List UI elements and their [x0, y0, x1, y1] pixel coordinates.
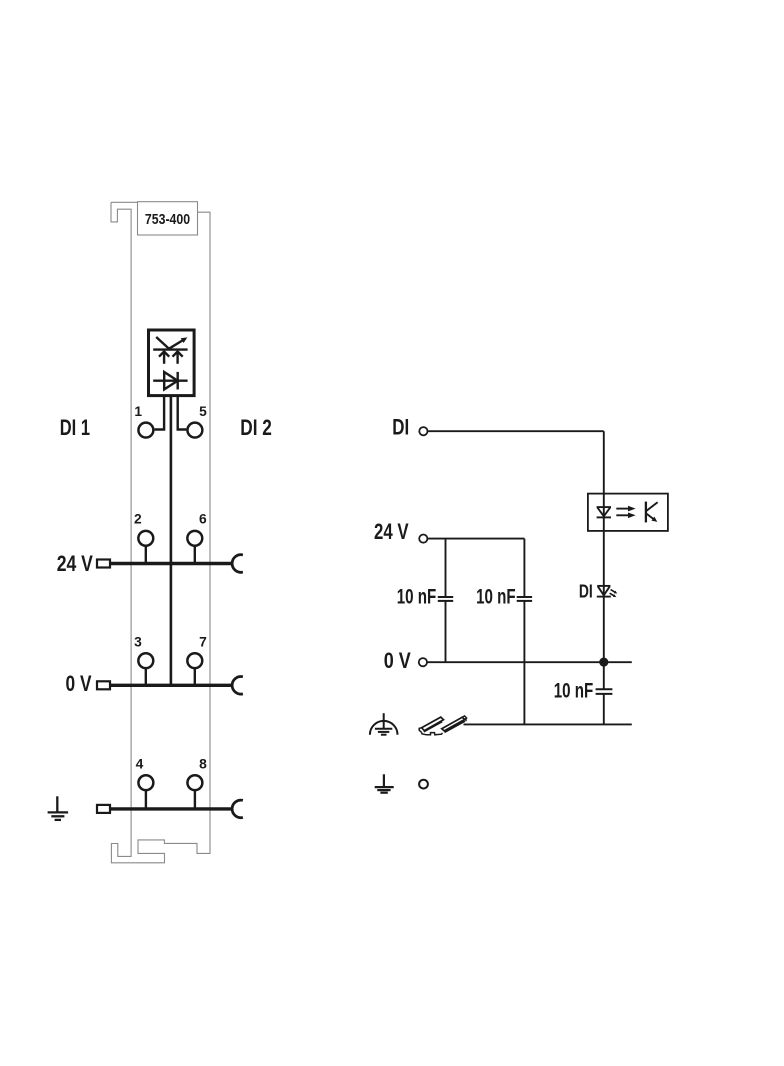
stem terminal 8: [194, 790, 196, 809]
svg-text:10 nF: 10 nF: [476, 586, 516, 609]
svg-text:10 nF: 10 nF: [554, 680, 594, 703]
svg-text:5: 5: [199, 404, 207, 419]
terminal 2: [138, 531, 153, 546]
0V open arc: [232, 677, 243, 695]
earth open arc: [232, 800, 243, 818]
svg-text:7: 7: [199, 635, 207, 650]
terminal 5: [187, 423, 202, 438]
24V open arc: [232, 555, 243, 573]
ground symbol bottom: [375, 774, 394, 792]
wire vertical main: [603, 431, 605, 689]
stem terminal 2: [145, 546, 147, 564]
svg-text:2: 2: [134, 512, 142, 527]
svg-text:DI 2: DI 2: [240, 415, 272, 440]
LED DI indicator: [597, 586, 611, 597]
wire cap1 drop: [445, 539, 447, 597]
label box 753-400: [138, 202, 198, 235]
wire 0V horizontal: [427, 661, 632, 663]
DIN rail symbol: [419, 716, 466, 735]
terminal 6: [187, 531, 202, 546]
24V field terminal square: [97, 560, 110, 568]
terminal 3: [138, 653, 153, 668]
stem terminal 3: [145, 668, 147, 685]
svg-text:DI: DI: [579, 580, 593, 601]
stem terminal 4: [145, 790, 147, 809]
node 24V terminal: [419, 535, 427, 543]
wire from box to terminal 5: [178, 397, 187, 430]
24V bus line: [110, 562, 233, 565]
terminal 8: [187, 775, 202, 790]
stem terminal 7: [194, 668, 196, 685]
node 0V terminal: [419, 658, 427, 666]
optocoupler LED: [597, 507, 611, 517]
svg-text:0 V: 0 V: [66, 671, 92, 696]
suppressor/input glyph inside box: [153, 337, 187, 364]
phototransistor Q1: [645, 502, 647, 523]
diode glyph inside box: [153, 372, 187, 390]
wire 24V horizontal: [427, 538, 524, 540]
capacitor C2 10nF: [517, 597, 532, 601]
capacitor C1 10nF: [438, 597, 453, 601]
svg-text:8: 8: [199, 757, 207, 772]
earth bus line: [110, 807, 233, 810]
input symbol box U1: [149, 330, 195, 396]
svg-text:0 V: 0 V: [384, 648, 411, 673]
wire cap2 drop: [523, 539, 525, 597]
terminal 1: [138, 423, 153, 438]
svg-text:6: 6: [199, 512, 207, 527]
wire from box to terminal 1: [155, 397, 165, 430]
light arrow 2: [616, 514, 628, 516]
svg-text:DI 1: DI 1: [60, 415, 90, 440]
junction dot: [599, 658, 608, 667]
svg-text:4: 4: [136, 757, 144, 772]
svg-text:3: 3: [134, 635, 142, 650]
svg-text:753-400: 753-400: [145, 212, 190, 228]
0V field terminal square: [97, 681, 110, 689]
0V bus line: [110, 684, 233, 687]
shield earth symbol: [370, 713, 398, 735]
module 753-400 outline: [111, 202, 210, 863]
wire center bus down to 0V: [170, 395, 173, 685]
earth field terminal square: [97, 805, 110, 813]
svg-text:DI: DI: [392, 415, 409, 440]
svg-text:10 nF: 10 nF: [397, 586, 437, 609]
svg-text:1: 1: [134, 404, 142, 419]
node open terminal bottom: [419, 780, 428, 789]
stem terminal 6: [194, 546, 196, 564]
ground symbol left: [48, 796, 69, 820]
capacitor C3 10nF: [596, 689, 613, 694]
op-amp U1 optocoupler box: [588, 494, 668, 531]
terminal 7: [187, 653, 202, 668]
light arrow 1: [616, 508, 628, 510]
svg-text:24 V: 24 V: [374, 519, 409, 544]
wire shield bottom line: [464, 723, 632, 725]
LED emission arrows: [611, 590, 616, 593]
wire DI to optocoupler: [428, 430, 604, 432]
svg-text:24 V: 24 V: [57, 551, 93, 576]
node DI terminal: [419, 427, 427, 435]
terminal 4: [138, 775, 153, 790]
